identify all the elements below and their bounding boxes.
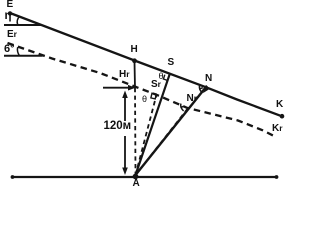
label Sr — [151, 80, 161, 90]
vertical dashed line Hr-A — [134, 88, 137, 174]
label Nr — [187, 94, 198, 104]
label E — [7, 0, 14, 10]
label eta — [5, 11, 12, 23]
label K — [276, 100, 283, 110]
angle mark at N — [199, 85, 202, 93]
label N — [205, 74, 212, 84]
right angle square at Sr — [151, 93, 156, 99]
horizontal arrow to Hr — [103, 87, 129, 89]
height arrow top head — [122, 91, 128, 99]
ground line — [12, 176, 277, 178]
point K dot — [280, 114, 285, 119]
label theta at S — [159, 72, 164, 81]
label Hr — [119, 70, 130, 80]
ground right end dot — [275, 175, 279, 179]
angle 6deg arc — [17, 47, 19, 55]
sight line A-S solid — [136, 74, 170, 175]
sight line A-N solid — [136, 86, 208, 175]
dashed line Er-Kr — [8, 43, 276, 137]
vertical line H-Hr solid — [134, 62, 137, 88]
main sight line E-K — [10, 13, 281, 116]
dashed line A-Sr — [136, 95, 157, 175]
label 6deg — [4, 44, 15, 55]
dashed line A-Nr — [136, 109, 188, 175]
label Kr — [272, 124, 283, 134]
height arrow bottom head — [122, 168, 128, 176]
horizontal reference line at E — [4, 24, 42, 26]
height arrow 120m shaft — [124, 96, 126, 170]
label theta at Sr — [142, 95, 147, 104]
point E dot — [8, 11, 12, 15]
angle eta arc — [17, 17, 19, 25]
point H dot — [132, 58, 137, 63]
point A dot — [133, 174, 139, 180]
junction ink blob at N — [203, 86, 209, 93]
label H — [131, 45, 138, 55]
label S — [168, 58, 175, 68]
ground left end dot — [11, 175, 15, 179]
horizontal reference line at Er — [4, 55, 43, 57]
label 120m — [103, 121, 133, 133]
angle mark at Nr — [181, 104, 184, 111]
label Er — [7, 30, 17, 40]
right angle square at S — [163, 75, 167, 81]
label A — [133, 179, 140, 189]
